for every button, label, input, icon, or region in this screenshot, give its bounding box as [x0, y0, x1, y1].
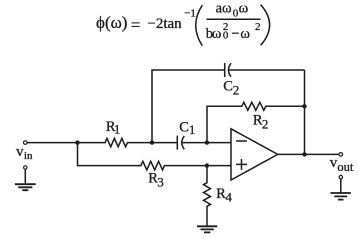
svg-text:v: v [16, 144, 24, 160]
svg-text:C: C [179, 119, 189, 135]
svg-text:1: 1 [189, 122, 196, 137]
svg-text:2: 2 [255, 21, 261, 33]
svg-text:in: in [24, 150, 33, 162]
svg-text:ω: ω [240, 26, 250, 42]
svg-text:−: − [231, 26, 239, 42]
svg-text:−1: −1 [184, 7, 196, 19]
svg-text:ϕ(ω): ϕ(ω) [96, 13, 127, 32]
svg-text:C: C [223, 79, 233, 95]
svg-text:0: 0 [223, 30, 229, 42]
svg-text:1: 1 [114, 122, 121, 137]
svg-text:2: 2 [233, 83, 240, 98]
svg-text:2: 2 [262, 117, 269, 132]
svg-text:out: out [337, 160, 354, 174]
svg-text:=: = [131, 15, 141, 34]
svg-text:ω: ω [222, 1, 232, 17]
svg-text:4: 4 [225, 190, 232, 205]
svg-text:ω: ω [212, 26, 222, 42]
svg-text:ω: ω [239, 1, 249, 17]
svg-text:3: 3 [157, 174, 164, 189]
svg-text:−2tan: −2tan [147, 16, 182, 32]
